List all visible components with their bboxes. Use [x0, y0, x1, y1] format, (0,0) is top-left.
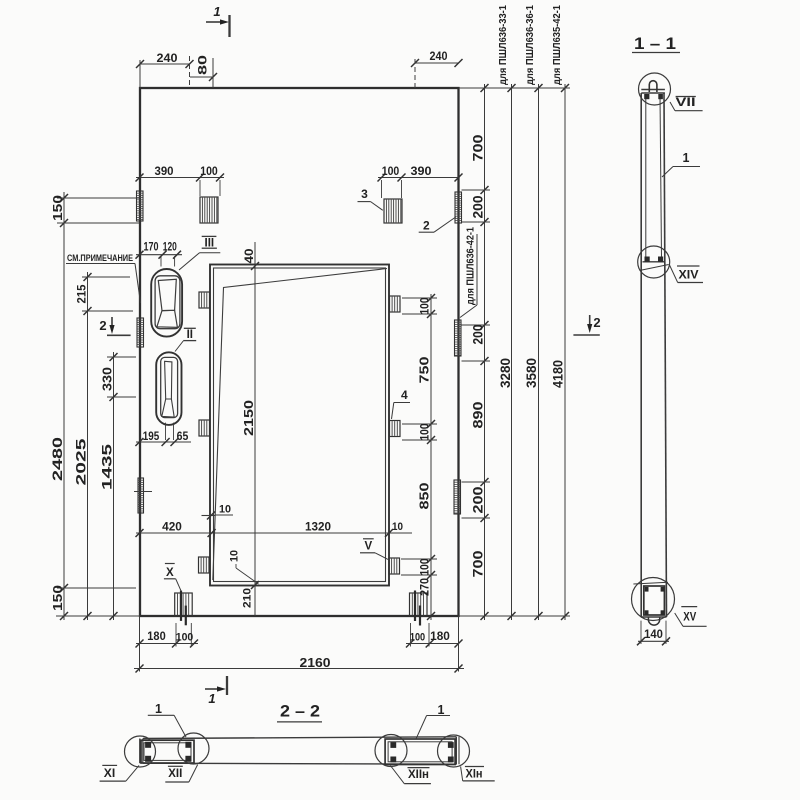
- lifting loop top: [649, 81, 657, 92]
- svg-text:100: 100: [200, 166, 218, 178]
- label 1 right insert with leader: [416, 703, 450, 739]
- label XIIn with leader: [390, 766, 431, 784]
- dim 195-65 oval II: [135, 423, 191, 446]
- oval slot II recess: [162, 361, 174, 417]
- note SM.PRIMECHANIE: [66, 253, 141, 303]
- svg-text:100: 100: [410, 632, 425, 644]
- dim line 4180: [551, 84, 570, 620]
- section 1-1 title: [632, 35, 680, 53]
- dim 240 top left: [136, 51, 194, 88]
- section 2-2 strip outline: [140, 737, 459, 764]
- label XII with leader: [165, 765, 197, 783]
- svg-text:XV: XV: [683, 612, 696, 624]
- label XI with leader: [100, 765, 139, 781]
- svg-text:2480: 2480: [50, 437, 65, 481]
- svg-text:1: 1: [208, 691, 215, 706]
- svg-text:100: 100: [420, 559, 432, 576]
- square plate top left: [200, 197, 218, 223]
- left chain 330-1435: [100, 352, 137, 620]
- section 2-2 title: [277, 703, 322, 722]
- label XIV with leader: [670, 265, 704, 283]
- svg-text:для ПШЛ636-33-1: для ПШЛ636-33-1: [497, 5, 509, 85]
- svg-text:270: 270: [420, 578, 432, 596]
- svg-text:65: 65: [177, 431, 189, 443]
- detail circle XIn: [438, 735, 470, 767]
- mini dim 10 left jamb: [202, 504, 234, 520]
- opening inner liner rect: [214, 268, 386, 582]
- label 10 bottom-left liner: [229, 550, 259, 584]
- embedded plate left edge middle (see note): [137, 318, 144, 347]
- jamb plate 4 right upper: [390, 296, 401, 312]
- insert XII outer: [141, 740, 194, 763]
- section mark 2 left: [99, 317, 130, 335]
- top edge extension right: [459, 87, 571, 89]
- XIV bottom bar and dots: [643, 257, 666, 262]
- svg-text:200: 200: [470, 195, 486, 218]
- insert XIIn outer: [385, 739, 455, 765]
- svg-text:140: 140: [644, 629, 663, 641]
- svg-text:II: II: [187, 329, 193, 341]
- svg-text:V: V: [364, 541, 372, 553]
- detail circle XV: [632, 578, 675, 621]
- jamb plate left lower: [199, 557, 210, 573]
- rebar dots top: [644, 94, 663, 99]
- svg-text:700: 700: [470, 134, 486, 161]
- bottom plate X left: [175, 591, 193, 626]
- dim 140 section: [637, 621, 670, 646]
- svg-text:3280: 3280: [498, 358, 513, 388]
- section 1-1 strip outline: [641, 93, 667, 617]
- lifting loop bottom: [648, 618, 659, 626]
- svg-text:100: 100: [382, 166, 400, 178]
- svg-text:240: 240: [157, 51, 178, 65]
- type text for PShL635-42-1: [551, 5, 563, 85]
- svg-text:850: 850: [417, 483, 432, 510]
- square plate 3 top right: [384, 199, 402, 223]
- oval slot III outer: [151, 269, 182, 337]
- oval slot III recess: [157, 279, 178, 327]
- right chain 700-200-890-200-700: [462, 84, 491, 620]
- detail circle XIIn: [375, 735, 407, 767]
- label XIn with leader: [461, 767, 495, 781]
- svg-text:10: 10: [392, 521, 403, 533]
- jamb plate left upper: [199, 292, 210, 308]
- left chain 215-2025: [74, 272, 134, 620]
- svg-text:150: 150: [50, 585, 65, 611]
- svg-text:10: 10: [219, 504, 231, 516]
- svg-text:890: 890: [470, 401, 486, 428]
- svg-text:700: 700: [470, 550, 486, 577]
- label II with leader: [175, 328, 196, 351]
- section 1-1 top bar: [641, 90, 665, 94]
- svg-text:2 – 2: 2 – 2: [280, 703, 320, 721]
- svg-text:180: 180: [147, 631, 165, 643]
- svg-text:750: 750: [417, 357, 432, 384]
- detail circle XIV: [638, 246, 670, 278]
- svg-text:200: 200: [470, 486, 486, 513]
- svg-text:200: 200: [470, 324, 486, 344]
- svg-text:195: 195: [143, 431, 160, 443]
- jamb plate 4 right middle: [390, 421, 401, 437]
- svg-text:215: 215: [77, 284, 89, 304]
- label 4 with leader: [392, 388, 411, 419]
- svg-text:2: 2: [99, 318, 106, 333]
- label III with leader: [179, 236, 220, 270]
- detail circle XI: [125, 736, 156, 767]
- dim 210 under opening: [242, 588, 254, 608]
- svg-text:150: 150: [50, 195, 65, 221]
- oval slot II outer: [156, 352, 181, 425]
- svg-text:2025: 2025: [74, 438, 89, 486]
- dim 420-1320-10 opening: [136, 521, 413, 537]
- detail circle XII: [178, 733, 209, 764]
- oval slot II inner rim: [161, 357, 178, 417]
- svg-text:XIIн: XIIн: [408, 769, 429, 781]
- svg-text:1320: 1320: [305, 522, 331, 534]
- embedded plate left edge lower: [138, 478, 144, 513]
- bottom edge extension right: [459, 615, 571, 617]
- svg-text:1: 1: [438, 703, 445, 717]
- oval slot III inner rim: [155, 276, 180, 329]
- label VII with leader: [670, 97, 703, 111]
- dim 180-100 bottom left: [136, 623, 199, 648]
- type text for PShL636-42-1 with leader: [460, 227, 477, 318]
- embedded plate right edge -42-1: [455, 320, 462, 356]
- svg-text:1435: 1435: [100, 443, 115, 490]
- section mark 1 top: [206, 4, 230, 37]
- svg-text:390: 390: [411, 166, 432, 178]
- embedded plate right edge lower: [454, 480, 461, 514]
- svg-text:2: 2: [423, 219, 430, 233]
- svg-text:1 – 1: 1 – 1: [634, 35, 676, 53]
- label V with leader: [360, 539, 388, 560]
- svg-text:240: 240: [430, 49, 448, 63]
- dim 100-390 right: [378, 166, 463, 198]
- dim line 3580: [524, 84, 543, 620]
- dim 240 top right: [411, 49, 463, 88]
- section 1-1 inner lines upper: [646, 95, 662, 258]
- svg-text:80: 80: [196, 55, 210, 75]
- svg-text:3: 3: [361, 187, 368, 201]
- svg-text:100: 100: [420, 424, 432, 441]
- svg-text:4180: 4180: [551, 360, 566, 388]
- svg-text:100: 100: [420, 298, 432, 315]
- opening diagonal: [213, 269, 387, 581]
- inner chain 100-750-100-850-100-270: [401, 294, 437, 620]
- svg-text:170: 170: [144, 242, 159, 254]
- svg-text:XII: XII: [168, 768, 182, 780]
- jamb plate V right lower: [389, 558, 400, 574]
- type text for PShL636-36-1: [524, 5, 536, 85]
- panel outline: [140, 88, 459, 616]
- dim 2160 bottom: [134, 616, 464, 673]
- label X with leader: [164, 564, 181, 591]
- dim line 3280: [498, 84, 516, 620]
- section mark 1 bottom: [205, 676, 227, 706]
- dim 80 top left: [190, 55, 217, 88]
- embedded plate left edge top: [137, 191, 144, 221]
- dim 40-2150 vertical line: [241, 242, 259, 616]
- svg-text:180: 180: [430, 631, 450, 643]
- left chain 150-2480-150: [50, 192, 140, 620]
- svg-text:100: 100: [176, 632, 194, 644]
- embedded plate 2 right edge top: [455, 192, 462, 223]
- svg-text:XI: XI: [104, 768, 115, 780]
- section mark 2 right: [573, 315, 600, 335]
- dim 170-120 oval III: [136, 242, 183, 267]
- svg-text:2: 2: [593, 315, 600, 330]
- svg-text:3580: 3580: [524, 358, 539, 388]
- svg-text:для ПШЛ636-42-1: для ПШЛ636-42-1: [465, 227, 477, 305]
- svg-text:390: 390: [155, 166, 174, 178]
- svg-text:XIV: XIV: [679, 270, 699, 282]
- svg-text:VII: VII: [676, 97, 696, 109]
- jamb plate left middle: [199, 420, 210, 436]
- svg-text:1: 1: [155, 702, 162, 716]
- dim 390-100 left: [136, 166, 225, 196]
- label 2 with leader: [419, 217, 456, 233]
- detail circle VII: [639, 73, 671, 105]
- svg-text:2160: 2160: [300, 656, 331, 670]
- svg-text:4: 4: [401, 388, 408, 402]
- extension line mid-left plate: [134, 491, 152, 493]
- svg-text:для ПШЛ635-42-1: для ПШЛ635-42-1: [551, 5, 563, 85]
- stirrup rect XV: [644, 586, 665, 615]
- svg-text:X: X: [166, 567, 174, 579]
- svg-text:XIн: XIн: [466, 769, 483, 781]
- svg-text:1: 1: [213, 4, 220, 19]
- bottom plate right: [410, 591, 428, 626]
- svg-text:10: 10: [229, 550, 241, 562]
- svg-text:120: 120: [163, 242, 177, 254]
- svg-text:для ПШЛ636-36-1: для ПШЛ636-36-1: [524, 5, 536, 85]
- svg-text:2150: 2150: [241, 400, 256, 436]
- svg-text:420: 420: [162, 522, 182, 534]
- opening outer rect: [210, 265, 389, 586]
- label XV with leader: [675, 607, 707, 627]
- svg-text:40: 40: [244, 249, 256, 264]
- dim 100-180 bottom right: [406, 623, 463, 648]
- label 1 left insert with leader: [148, 702, 186, 737]
- svg-text:1: 1: [683, 151, 690, 165]
- label 1 section with leader: [662, 151, 700, 177]
- svg-text:330: 330: [101, 367, 115, 391]
- type text for PShL636-33-1: [497, 5, 509, 85]
- svg-text:СМ.ПРИМЕЧАНИЕ: СМ.ПРИМЕЧАНИЕ: [67, 253, 133, 263]
- label 3 with leader: [358, 187, 383, 210]
- svg-text:210: 210: [242, 588, 254, 608]
